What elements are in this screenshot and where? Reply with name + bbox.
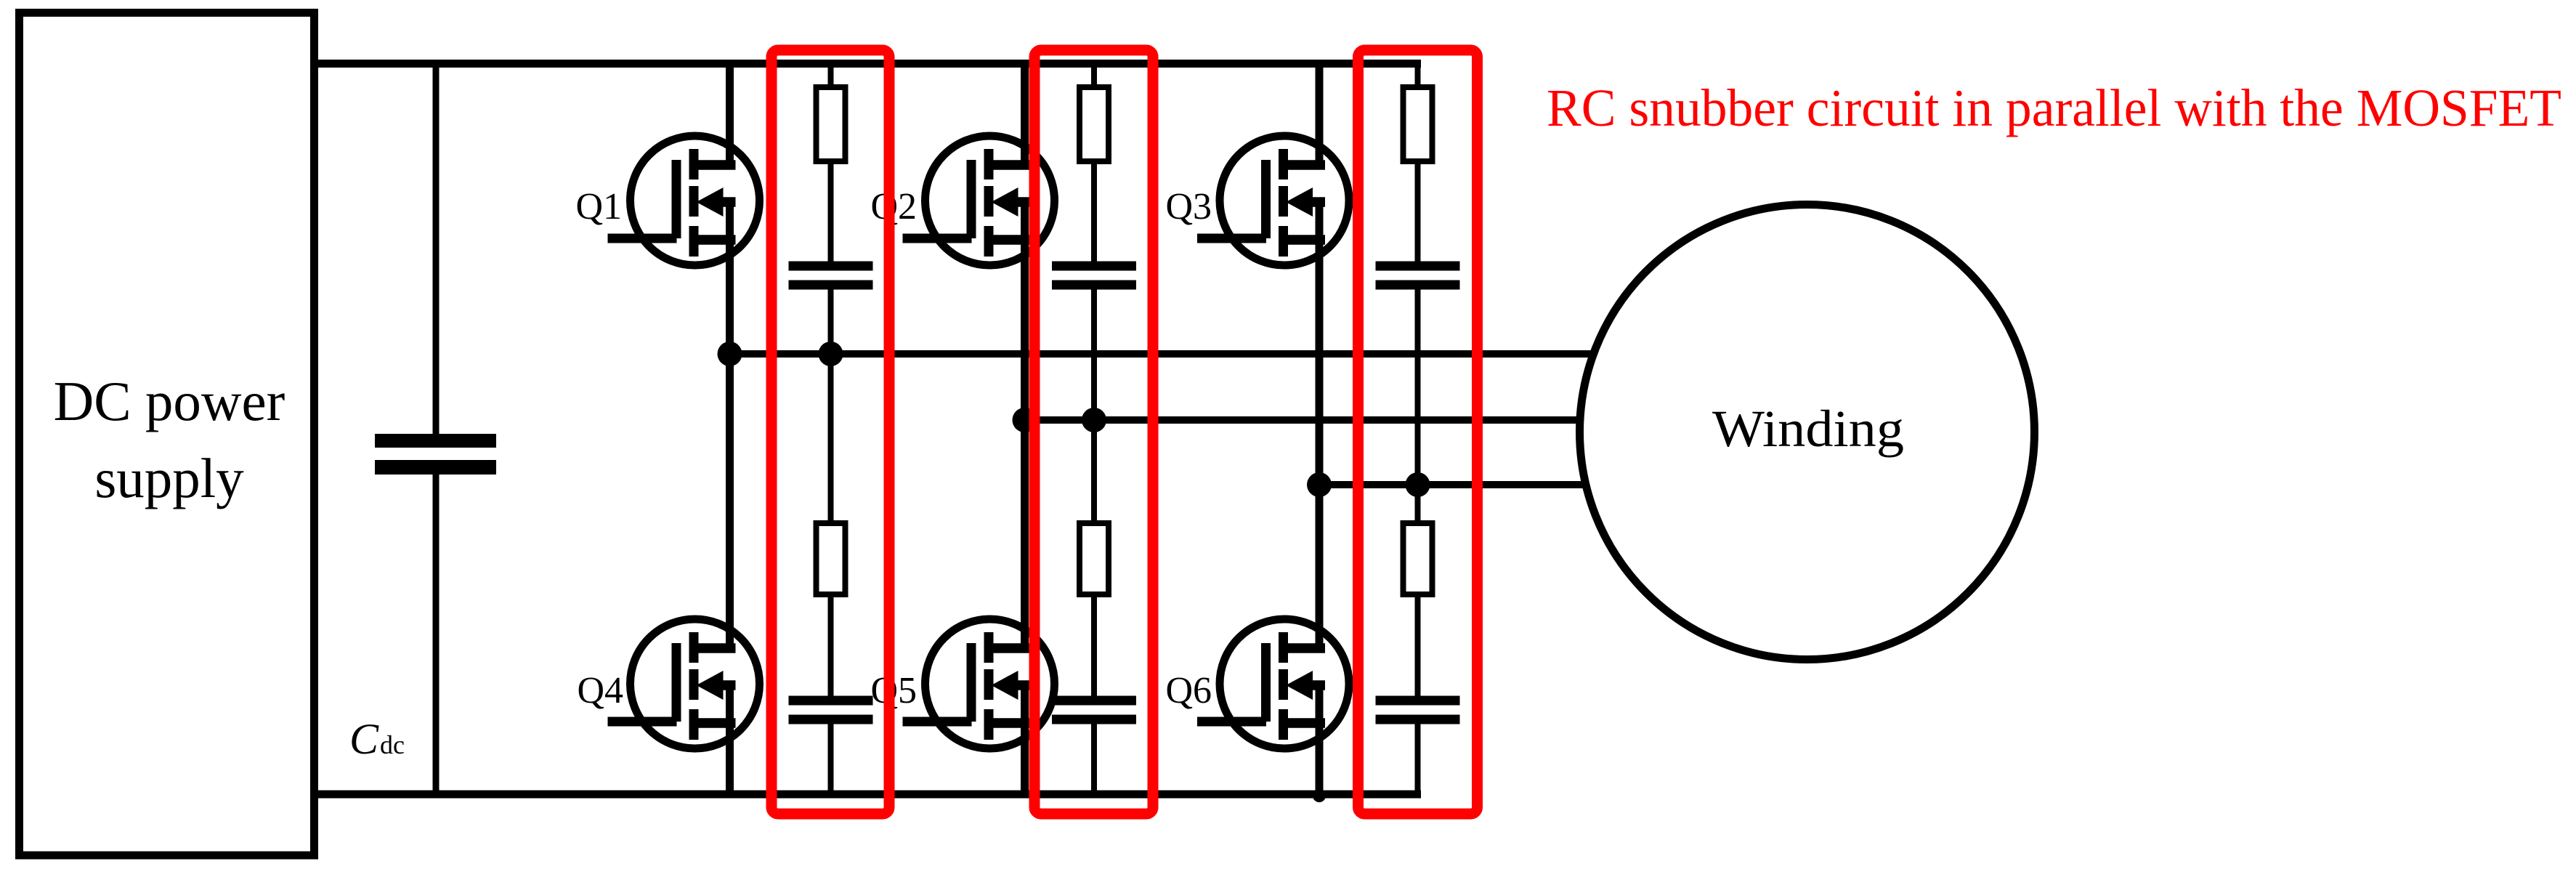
- transistor Q5: [903, 619, 1055, 748]
- wire: [1415, 724, 1421, 795]
- DC power supply box: [20, 13, 315, 856]
- transistor Q6: [1197, 619, 1349, 748]
- snubber 1 lower: wire: [828, 354, 834, 523]
- node leg3-phaseC: [1307, 472, 1332, 497]
- svg-text:Q6: Q6: [1165, 670, 1212, 711]
- wire: [828, 290, 834, 354]
- svg-text:supply: supply: [94, 447, 244, 509]
- resistor R2: [1080, 87, 1109, 161]
- wire: [1415, 164, 1421, 262]
- svg-text:DC power: DC power: [54, 370, 285, 432]
- wire leg 3: [1316, 60, 1324, 168]
- transistor Q4: [608, 619, 760, 748]
- resistor R1: [817, 87, 846, 161]
- svg-text:RC snubber circuit in parallel: RC snubber circuit in parallel with the …: [1547, 78, 2561, 137]
- snubber 2 lower: wire: [1091, 420, 1097, 523]
- snubber 1 upper: wire: [828, 62, 834, 87]
- wire: [1091, 724, 1097, 795]
- winding circle: [1580, 205, 2035, 660]
- transistor Q2: [903, 136, 1055, 265]
- wire leg 1: [726, 60, 734, 168]
- resistor R5: [1080, 523, 1109, 594]
- node leg1-phaseA: [718, 342, 742, 366]
- wire: [1415, 290, 1421, 485]
- node snubber1-phaseA: [819, 342, 843, 366]
- capacitor Cdc: [375, 434, 496, 448]
- wire: [828, 164, 834, 262]
- wire bottom rail: [314, 791, 1421, 799]
- svg-text:Winding: Winding: [1712, 400, 1904, 458]
- node leg2-phaseB: [1013, 408, 1037, 432]
- node leg3-bottom: [1313, 789, 1326, 802]
- wire phase line C: [1316, 481, 1628, 488]
- wire leg 2: [1021, 60, 1029, 168]
- snubber highlight box 1: [771, 50, 889, 814]
- capacitor C1: [789, 262, 873, 271]
- node snubber2-phaseB: [1082, 408, 1106, 432]
- resistor R4: [817, 523, 846, 594]
- snubber highlight box 2: [1034, 50, 1153, 814]
- wire: [828, 597, 834, 696]
- wire: [1091, 597, 1097, 696]
- capacitor C4: [789, 696, 873, 706]
- svg-text:Q4: Q4: [577, 670, 623, 711]
- snubber 2 upper: wire: [1091, 62, 1097, 87]
- capacitor C3: [1376, 262, 1460, 271]
- wire: [1415, 597, 1421, 696]
- snubber 3 lower: wire: [1415, 485, 1421, 523]
- node snubber3-phaseC: [1406, 472, 1430, 497]
- wire Cdc bottom lead: [433, 474, 440, 794]
- resistor R6: [1404, 523, 1433, 594]
- transistor Q3: [1197, 136, 1349, 265]
- snubber highlight box 3: [1358, 50, 1478, 814]
- resistor R3: [1404, 87, 1433, 161]
- wire top rail: [314, 60, 1421, 68]
- wire Cdc top lead: [433, 62, 440, 435]
- capacitor C6: [1376, 696, 1460, 706]
- transistor Q1: [608, 136, 760, 265]
- svg-text:Q3: Q3: [1165, 186, 1212, 227]
- wire phase line B: [1021, 416, 1627, 424]
- capacitor C5: [1052, 696, 1136, 706]
- wire: [1091, 164, 1097, 262]
- wire phase line A: [726, 350, 1627, 358]
- wire: [828, 724, 834, 795]
- snubber 3 upper: wire: [1415, 62, 1421, 87]
- capacitor C2: [1052, 262, 1136, 271]
- wire: [1091, 290, 1097, 421]
- svg-text:Q1: Q1: [575, 186, 622, 227]
